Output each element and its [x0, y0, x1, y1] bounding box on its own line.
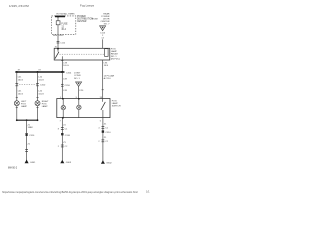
splice bus S300 [15, 71, 64, 73]
svg-text:C310: C310 [65, 135, 71, 137]
svg-text:G303: G303 [66, 162, 72, 164]
wire relay bus line to switch box [61, 72, 63, 99]
svg-text:16LG: 16LG [63, 65, 69, 67]
wire switch to ground right [102, 118, 104, 161]
svg-text:NO. 7: NO. 7 [104, 23, 110, 25]
wire relay 87 to bus [61, 60, 63, 72]
wire fuse down inside PDC [57, 25, 59, 35]
svg-text:G301: G301 [30, 162, 36, 164]
node relay pin 30 [57, 48, 59, 50]
svg-text:SWITCH: SWITCH [112, 106, 121, 108]
fog lamp switch box [57, 99, 110, 118]
svg-text:https//www.moparpartsgiant.com: https//www.moparpartsgiant.com/service-i… [2, 190, 138, 194]
svg-text:NO. 1: NO. 1 [74, 78, 80, 80]
svg-text:18 B: 18 B [104, 65, 109, 67]
wire bus to fuse [57, 17, 59, 21]
relay coil [105, 49, 109, 57]
svg-text:16LG: 16LG [18, 93, 24, 95]
svg-text:C310: C310 [29, 135, 35, 137]
svg-text:LAMP: LAMP [42, 105, 48, 108]
ground triangle symbol (source arrow) [100, 26, 106, 31]
lamp right fog [35, 101, 40, 106]
svg-text:C310: C310 [65, 85, 71, 87]
ground G301 [25, 160, 29, 164]
terminal 19 [102, 89, 104, 91]
fuse F12 [56, 21, 60, 25]
indicator lamp 1 [62, 99, 64, 106]
terminal ticks above lamps [16, 96, 18, 98]
wire bus to right fog lamp [37, 72, 39, 101]
node bus tap [57, 16, 58, 17]
relay switch blade [57, 49, 59, 52]
svg-text:C310: C310 [105, 132, 111, 134]
svg-text:16LG: 16LG [38, 93, 44, 95]
svg-text:HOT AT ALL TIMES: HOT AT ALL TIMES [57, 12, 76, 15]
svg-text:8W-50-2: 8W-50-2 [8, 166, 18, 169]
wire PDC to C110 [57, 34, 59, 48]
indicator lamp 2 [78, 99, 80, 105]
node lamp bottoms join [62, 117, 64, 119]
svg-text:FUSE: FUSE [92, 19, 98, 21]
relay U1 box [54, 48, 110, 60]
svg-text:18BK: 18BK [28, 127, 34, 129]
wire triangle to relay coil [102, 39, 104, 48]
bus bar (hot feed) [55, 15, 65, 17]
lamp left fog [14, 101, 19, 106]
power distribution center dashed box [52, 16, 76, 34]
svg-text:30 A: 30 A [61, 28, 66, 31]
svg-text:CENTER: CENTER [77, 21, 87, 23]
svg-text:LAMP: LAMP [21, 105, 27, 108]
wire joint connector to switch box [78, 86, 80, 98]
wire bus to left fog lamp [16, 72, 18, 101]
svg-text:C110: C110 [60, 42, 66, 44]
svg-text:C314: C314 [66, 72, 72, 74]
ground G303 [60, 160, 64, 164]
switch contact [102, 99, 104, 102]
svg-text:A C110: A C110 [104, 77, 112, 80]
connector C110 [57, 40, 60, 42]
joint connector triangle [76, 82, 82, 87]
svg-text:FOG: FOG [112, 100, 117, 102]
svg-text:1/3/25, 2:51 PM: 1/3/25, 2:51 PM [9, 4, 29, 8]
svg-text:14 PILLAR: 14 PILLAR [104, 74, 115, 77]
svg-text:C310: C310 [40, 85, 46, 87]
svg-text:1/1: 1/1 [146, 190, 150, 194]
svg-text:A16 12RD: A16 12RD [53, 34, 64, 37]
svg-text:16LG: 16LG [18, 79, 24, 81]
relay internal dashed link [60, 53, 105, 55]
node entries on box top [62, 98, 64, 100]
svg-text:FUSE: FUSE [61, 24, 68, 26]
connector on ground wire [25, 132, 28, 134]
svg-text:16LG: 16LG [38, 79, 44, 81]
node S300 taps [16, 71, 18, 73]
wire relay coil 85 down [102, 60, 104, 99]
svg-text:Fog Lamps: Fog Lamps [80, 3, 95, 7]
connector boundary C310 dashed [17, 84, 38, 86]
wire lamps to join bus [16, 106, 18, 121]
svg-text:(IN PDC): (IN PDC) [111, 59, 120, 61]
ground join bus [17, 119, 38, 121]
wire join bus to ground [26, 120, 28, 160]
svg-text:POWER: POWER [77, 16, 86, 18]
relay output stub [61, 56, 63, 60]
ground G302 [101, 160, 105, 164]
svg-text:G302: G302 [106, 162, 112, 164]
wire switch box left to ground [61, 118, 63, 161]
